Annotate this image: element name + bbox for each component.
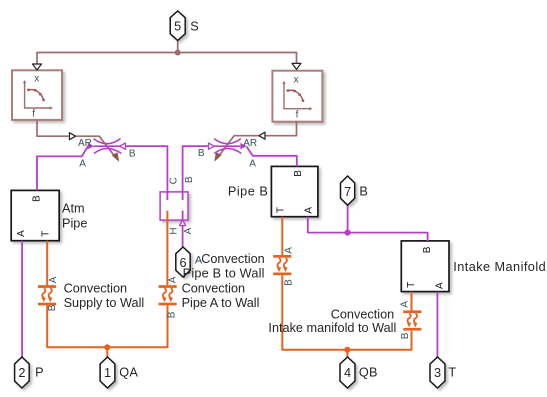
svg-text:Convection: Convection <box>182 281 245 295</box>
svg-text:B: B <box>284 279 295 286</box>
wire U2 out to restriction R2 AR <box>266 121 297 136</box>
svg-text:f: f <box>32 109 35 120</box>
port 7 <box>341 176 355 205</box>
svg-text:B: B <box>32 195 43 202</box>
svg-text:T: T <box>406 282 417 288</box>
svg-text:Pipe: Pipe <box>62 216 87 230</box>
port 1 <box>100 357 115 388</box>
junction QB <box>344 347 350 353</box>
svg-text:A: A <box>195 254 203 266</box>
port 2 <box>15 357 30 388</box>
block middle pipe subsystem <box>160 192 188 220</box>
junction QA <box>104 344 110 350</box>
svg-text:B: B <box>422 246 433 253</box>
svg-text:B: B <box>47 304 58 311</box>
svg-text:Convection: Convection <box>64 281 127 295</box>
restriction R1 (left variable local restriction) <box>94 139 122 154</box>
block Pipe B <box>271 166 318 216</box>
convection block supply (icon) <box>38 285 56 305</box>
svg-text:2: 2 <box>18 366 25 380</box>
svg-text:1: 1 <box>104 366 111 380</box>
svg-text:AR: AR <box>243 138 257 149</box>
svg-text:S: S <box>190 19 198 33</box>
svg-text:Intake Manifold: Intake Manifold <box>453 260 546 274</box>
svg-text:H: H <box>169 227 180 234</box>
convection block pipe B (icon) <box>273 255 291 275</box>
svg-text:B: B <box>167 311 178 318</box>
svg-text:B: B <box>184 176 195 183</box>
wire R1 A to Atm Pipe B <box>37 146 88 190</box>
port 5 <box>170 11 185 41</box>
svg-text:B: B <box>359 185 367 199</box>
svg-text:4: 4 <box>344 366 351 380</box>
control arrowhead R2 <box>214 152 222 162</box>
svg-text:P: P <box>35 366 43 380</box>
middle block stubs <box>166 211 168 286</box>
arrow into U1 <box>33 64 42 70</box>
svg-text:Intake manifold to Wall: Intake manifold to Wall <box>268 321 396 335</box>
svg-text:T: T <box>448 366 456 380</box>
svg-text:f: f <box>296 109 299 120</box>
svg-text:Convection: Convection <box>331 308 394 322</box>
restriction R2 (right variable local restriction) <box>214 139 241 154</box>
svg-text:Pipe B to Wall: Pipe B to Wall <box>183 266 265 280</box>
wire S port 5 to PS bus <box>177 41 179 53</box>
svg-text:3: 3 <box>434 366 441 380</box>
svg-text:x: x <box>34 74 39 85</box>
port 3 <box>430 357 445 388</box>
control arrowhead R1 <box>112 152 119 162</box>
wire port7 to junction <box>347 205 349 232</box>
svg-text:A: A <box>79 158 86 169</box>
wire port6 to middle block A with hollow up arrow <box>182 226 184 247</box>
svg-text:Convection: Convection <box>201 252 264 266</box>
wire Pipe B T to conv pipeB <box>281 217 283 255</box>
svg-text:T: T <box>276 207 287 213</box>
svg-text:A: A <box>434 282 445 289</box>
svg-text:QB: QB <box>359 366 378 380</box>
svg-text:AR: AR <box>78 138 92 149</box>
svg-text:7: 7 <box>344 185 351 199</box>
port 4 <box>340 357 355 388</box>
wire U1 out to restriction AR <box>37 120 69 136</box>
svg-text:A: A <box>16 230 27 237</box>
svg-text:A: A <box>167 276 178 283</box>
svg-text:T: T <box>40 231 51 237</box>
svg-text:Atm: Atm <box>62 202 85 216</box>
wire Atm Pipe A to port2 <box>21 241 23 357</box>
wire conv supply B to bus <box>47 305 167 347</box>
svg-text:B: B <box>198 148 205 159</box>
svg-text:A: A <box>249 159 256 170</box>
R2 hollow arrow B side <box>209 143 215 149</box>
svg-text:Supply to Wall: Supply to Wall <box>64 296 145 310</box>
svg-text:A: A <box>48 276 59 283</box>
svg-text:C: C <box>169 177 180 184</box>
arrow mid-wire left <box>69 133 75 140</box>
R1 hollow arrow B side <box>120 143 126 149</box>
R2 solid arrow A side <box>240 143 246 150</box>
wire Pipe B A to Intake Manifold B <box>308 217 428 241</box>
arrow into U2 <box>292 63 301 69</box>
svg-text:x: x <box>294 74 299 85</box>
arrow mid-wire right <box>259 132 265 139</box>
wire conv pipeB B to bus right <box>282 275 411 350</box>
wire R2 B to middle block B <box>183 146 209 200</box>
R1 solid arrow A side <box>88 143 94 150</box>
wire Intake Manifold A to port3 <box>436 292 438 357</box>
convection block pipe A (icon) <box>159 285 177 305</box>
lookup block U1 (left PS lookup) <box>12 70 62 120</box>
convection block intake (icon) <box>403 310 421 330</box>
block Intake Manifold <box>401 241 449 292</box>
svg-text:A: A <box>400 301 411 308</box>
svg-text:5: 5 <box>174 19 181 33</box>
svg-text:B: B <box>129 149 136 160</box>
wire R2 A to Pipe B port B <box>246 147 296 167</box>
svg-text:B: B <box>400 332 411 339</box>
wire Intake Manifold T to conv intake <box>411 292 413 311</box>
svg-text:Pipe A to Wall: Pipe A to Wall <box>182 296 260 310</box>
svg-text:A: A <box>183 227 194 234</box>
svg-text:Pipe B: Pipe B <box>228 185 268 199</box>
lookup block U2 (right PS lookup) <box>272 71 322 122</box>
port 6 <box>176 247 190 277</box>
svg-text:QA: QA <box>119 366 138 380</box>
svg-text:B: B <box>293 170 304 177</box>
wire PS bus horizontal <box>37 53 297 64</box>
junction B7 <box>345 230 351 236</box>
block Atm Pipe <box>11 190 59 240</box>
wire after arrow to diagonal <box>76 136 117 159</box>
wire after arrow to diagonal R2 <box>217 136 259 159</box>
junction S <box>175 50 181 56</box>
wire R1 B to middle block C <box>125 146 167 200</box>
svg-text:A: A <box>284 247 295 254</box>
wire Atm Pipe T to convection <box>46 241 48 286</box>
svg-text:A: A <box>303 207 314 214</box>
